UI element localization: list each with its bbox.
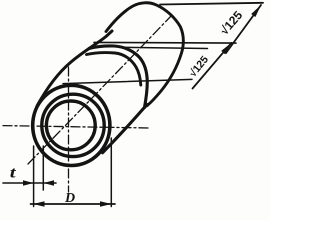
rear end outline	[106, 3, 183, 106]
inner middle arc	[87, 53, 141, 85]
front inner circle 1 (bore)	[42, 94, 104, 156]
D right arrow	[100, 201, 112, 207]
middle roughness leader	[193, 43, 232, 89]
D dimension line	[31, 203, 116, 205]
D left arrow	[33, 201, 44, 207]
svg-text:t: t	[10, 164, 17, 182]
oblique axis centerline	[28, 15, 172, 164]
t extension line right	[42, 146, 44, 190]
svg-text:√125: √125	[187, 54, 211, 80]
label t	[10, 164, 17, 182]
outer middle arc (shoulder)	[89, 46, 147, 108]
svg-text:D: D	[64, 191, 75, 206]
extension line A2 (from inner middle arc top)	[119, 47, 208, 48]
lower tangent silhouette	[103, 105, 148, 153]
front inner circle 2	[46, 101, 95, 150]
horizontal centerline	[3, 126, 150, 128]
roughness text top	[217, 8, 245, 38]
t right arrow	[44, 180, 55, 185]
t left arrow	[23, 180, 34, 185]
roughness text middle	[187, 54, 211, 80]
top extension line (from rear circle top)	[160, 3, 263, 5]
front outer circle	[33, 85, 110, 165]
top leader arrowhead	[251, 5, 261, 17]
top roughness leader	[226, 5, 261, 53]
vertical centerline	[68, 67, 70, 192]
upper tangent silhouette	[37, 31, 112, 106]
t extension line left	[33, 146, 35, 207]
D extension line right	[110, 138, 112, 207]
extension line A1 (from outer middle arc top)	[94, 41, 236, 44]
middle leader arrowhead	[221, 43, 231, 55]
extension line B (from front circle top)	[63, 79, 192, 83]
t dimension line	[3, 182, 56, 184]
